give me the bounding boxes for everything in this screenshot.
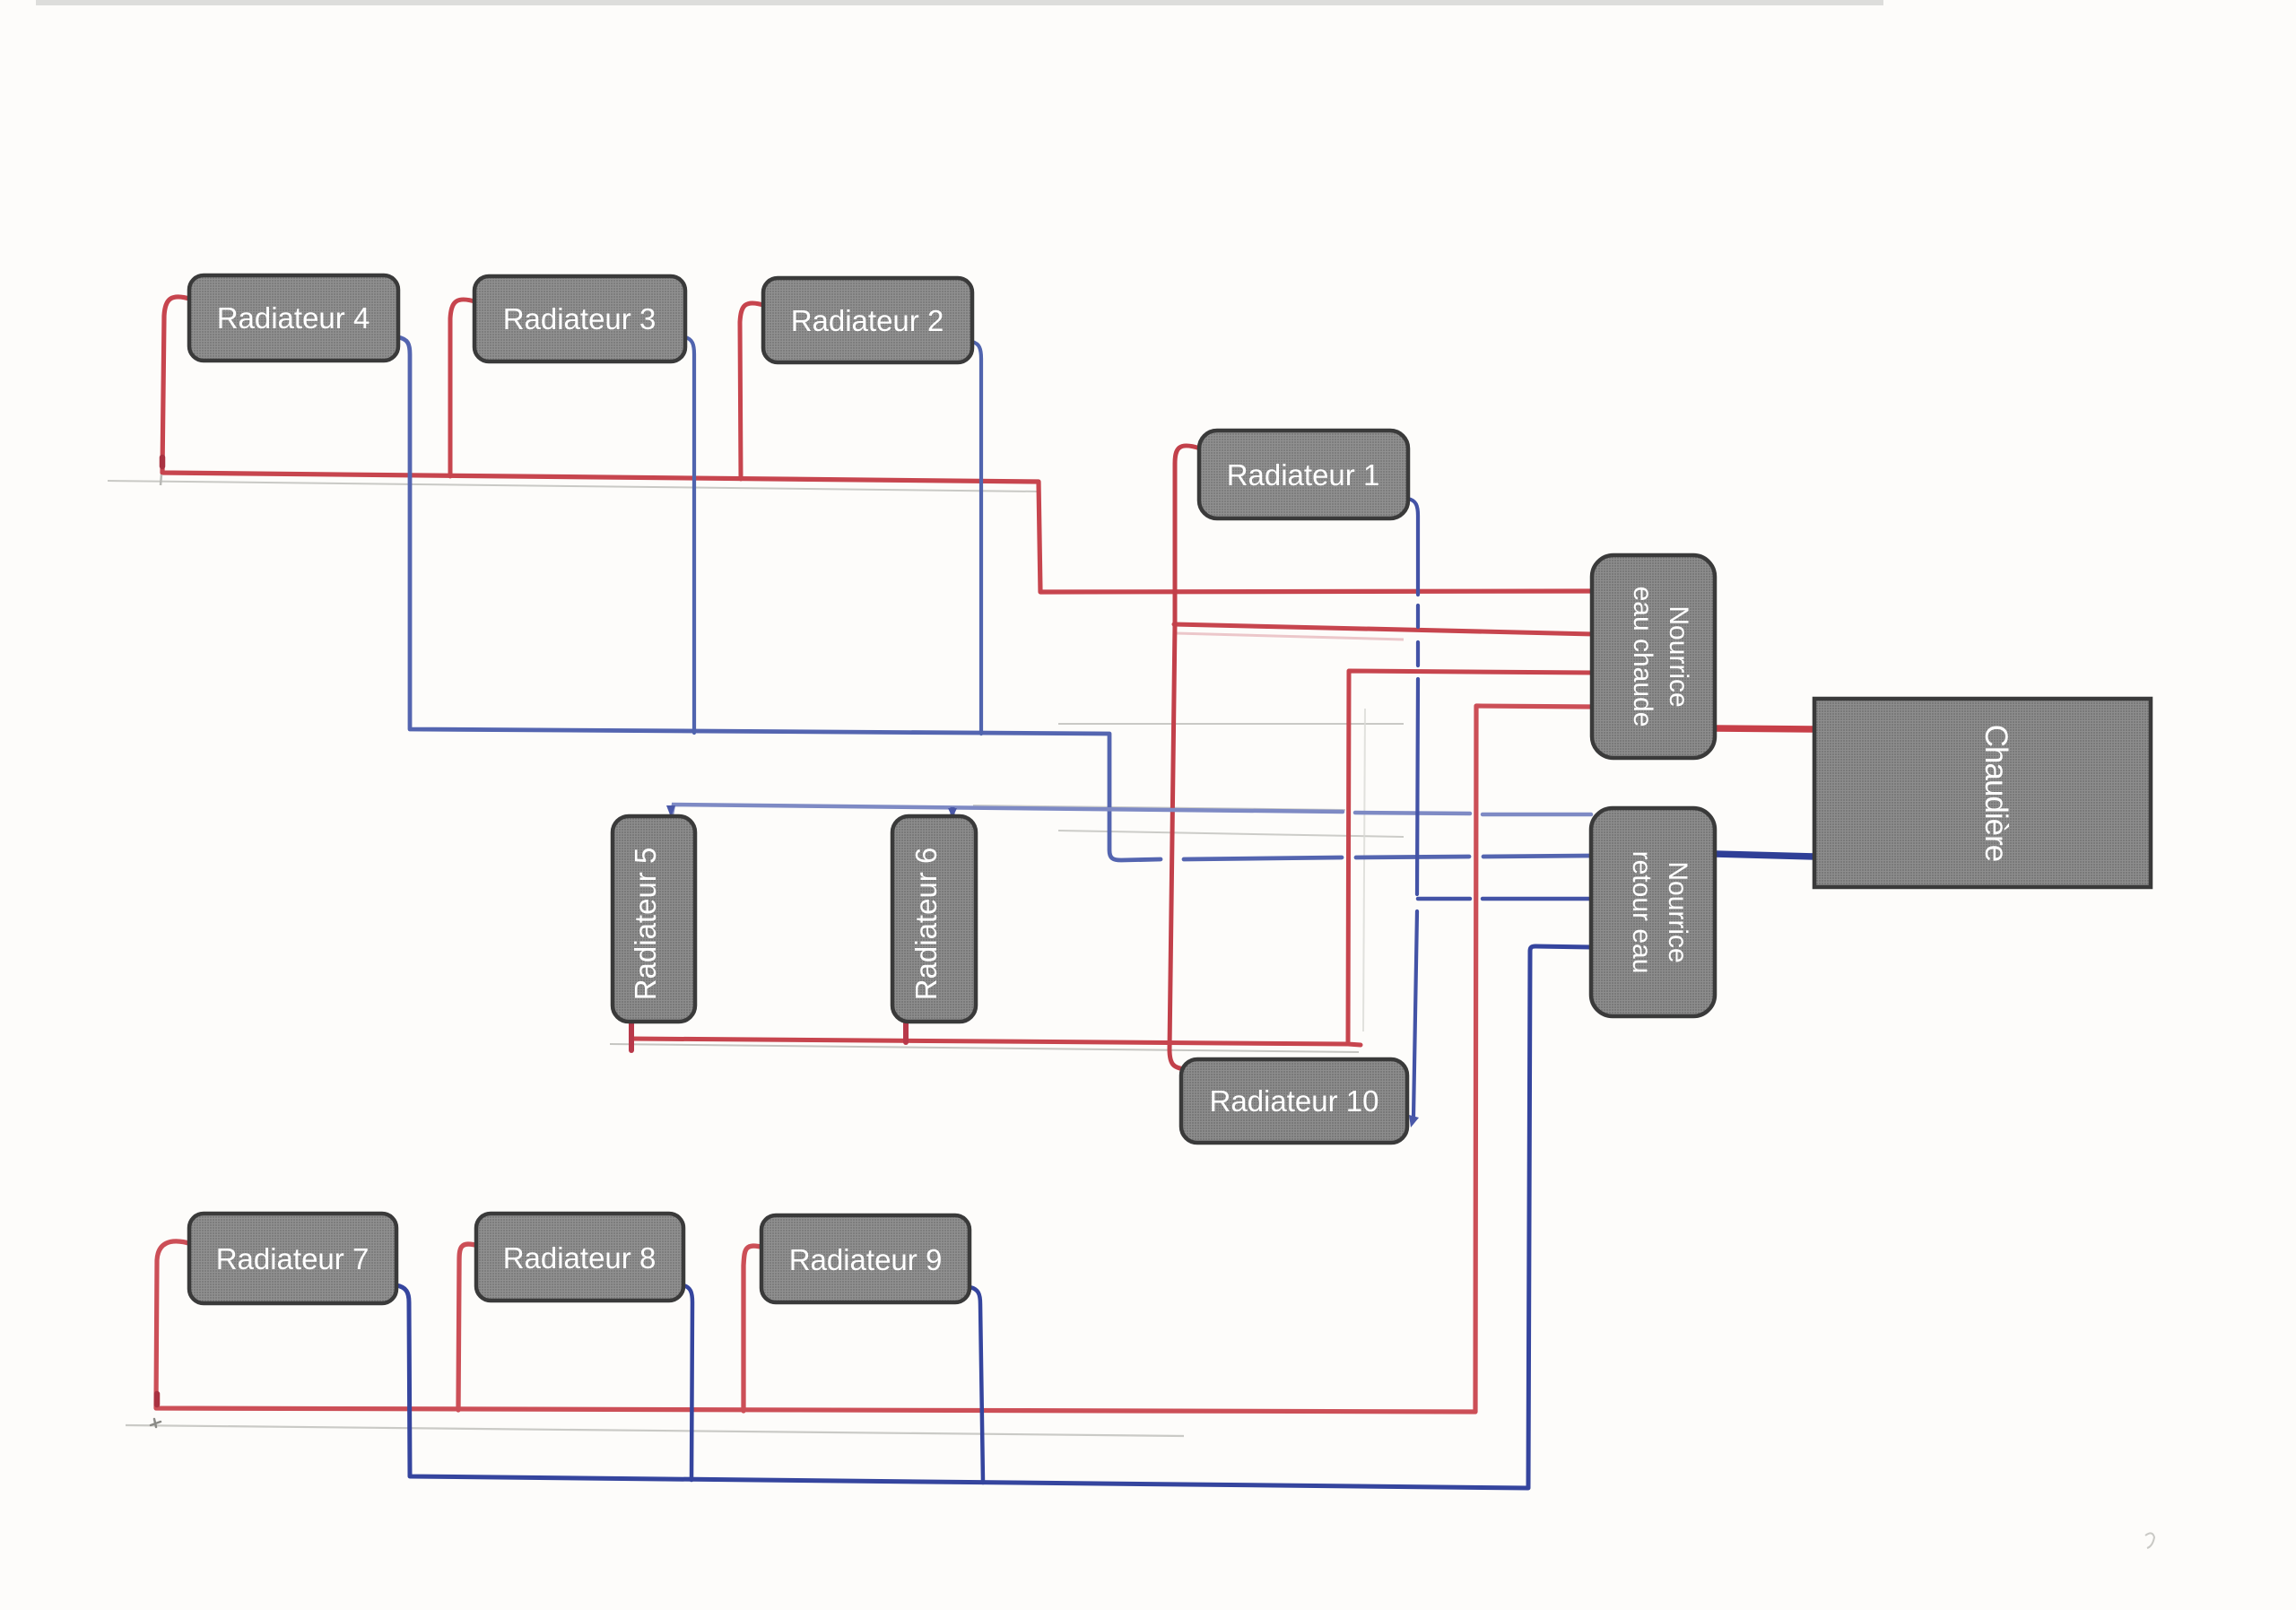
pencil vertical guide near supply riser xyxy=(1363,709,1365,1031)
box Nourrice retour eau xyxy=(1591,808,1715,1016)
box Nourrice eau chaude xyxy=(1592,555,1715,758)
pencil guide under bottom red main xyxy=(126,1425,1184,1436)
wire red supply main radiators 2/3/4 with radiateur 4 riser xyxy=(162,297,1594,592)
pencil guide under top red main xyxy=(108,481,1040,492)
faint pink double line under radiateur 1 supply xyxy=(1176,633,1404,640)
box Radiateur 8 xyxy=(476,1214,683,1301)
box Radiateur 2 xyxy=(763,278,972,362)
box Radiateur 6 xyxy=(892,816,976,1022)
svg-text:Radiateur 6: Radiateur 6 xyxy=(909,848,943,1001)
svg-text:Radiateur 2: Radiateur 2 xyxy=(791,304,944,337)
box Radiateur 9 xyxy=(761,1215,970,1302)
svg-text:Radiateur 4: Radiateur 4 xyxy=(217,301,370,335)
wire red riser radiateur 1 down to radiateur 10 xyxy=(1170,446,1200,1069)
pencil guide under radiateur 5/6 red line xyxy=(610,1044,1359,1052)
wire red riser radiateur 2 xyxy=(740,303,766,479)
wire red supply radiateur 1 horizontal from nourrice xyxy=(1174,624,1594,634)
wire red riser radiateur 3 xyxy=(450,300,477,476)
node arrow into radiateur 5 xyxy=(666,805,675,817)
wire red riser radiateur 9 xyxy=(744,1246,764,1411)
wire blue drop radiateur 2 xyxy=(972,342,981,734)
svg-text:Nourrice: Nourrice xyxy=(1663,861,1692,962)
wire blue return radiateur 1 drop xyxy=(1408,499,1418,1117)
scanner top edge shadow xyxy=(36,0,1883,5)
pencil guide mid area 1 xyxy=(1058,723,1404,725)
svg-text:retour eau: retour eau xyxy=(1627,851,1657,974)
pencil mark below bottom corner xyxy=(151,1419,161,1427)
wire blue drop radiateur 8 xyxy=(683,1285,692,1480)
box Radiateur 3 xyxy=(474,276,685,361)
wire red riser radiateur 8 xyxy=(458,1244,479,1410)
wire blue stub radiateur 6 xyxy=(951,807,955,814)
box Radiateur 4 xyxy=(189,275,398,361)
wire blue return radiators 7/8/9 with radiateur 7 drop xyxy=(396,946,1591,1488)
svg-text:Nourrice: Nourrice xyxy=(1664,605,1693,707)
pencil tick below corner xyxy=(161,474,161,485)
box Radiateur 7 xyxy=(189,1214,396,1303)
wire red supply main radiators 7/8/9 with radiateur 7 riser xyxy=(156,706,1594,1412)
pencil guide mid area 3 xyxy=(1058,831,1404,837)
wire red stub radiateur 6 xyxy=(903,1019,909,1042)
node arrow into radiateur 6 xyxy=(948,808,957,818)
box Chaudiere xyxy=(1814,699,2151,887)
wire red link nourrice eau chaude to chaudiere xyxy=(1715,728,1814,729)
svg-text:Radiateur 10: Radiateur 10 xyxy=(1210,1084,1379,1118)
svg-text:Radiateur 8: Radiateur 8 xyxy=(503,1241,657,1275)
svg-text:Radiateur 3: Radiateur 3 xyxy=(503,302,657,335)
pencil squiggle bottom right xyxy=(2145,1533,2154,1548)
wire blue return radiators 2/3/4 with radiateur 4 drop xyxy=(398,337,1591,860)
svg-text:Radiateur 1: Radiateur 1 xyxy=(1227,458,1380,492)
svg-text:Chaudière: Chaudière xyxy=(1979,725,2013,862)
node corner blob main left xyxy=(160,457,166,466)
node corner blob bottom left xyxy=(154,1394,161,1405)
wire blue drop radiateur 3 xyxy=(685,337,694,733)
box Radiateur 1 xyxy=(1199,431,1408,518)
svg-text:eau chaude: eau chaude xyxy=(1628,587,1657,727)
pencil guide mid area 2 xyxy=(973,805,1345,810)
box Radiateur 10 xyxy=(1181,1059,1407,1143)
wire blue link chaudiere to nourrice retour eau xyxy=(1715,854,1814,857)
box Radiateur 5 xyxy=(613,816,695,1022)
wire red supply radiators 5/6 from nourrice xyxy=(631,671,1594,1045)
wire red hook radiateur 5 xyxy=(629,1020,634,1050)
wire blue branch to nourrice retour xyxy=(1418,897,1591,901)
wire blue drop radiateur 9 xyxy=(970,1287,983,1483)
wire blue return radiators 5/6 xyxy=(672,805,1591,814)
svg-text:Radiateur 5: Radiateur 5 xyxy=(629,848,662,1001)
node arrow into radiateur 10 xyxy=(1409,1115,1419,1127)
svg-text:Radiateur 7: Radiateur 7 xyxy=(216,1242,370,1275)
svg-text:Radiateur 9: Radiateur 9 xyxy=(789,1243,943,1276)
